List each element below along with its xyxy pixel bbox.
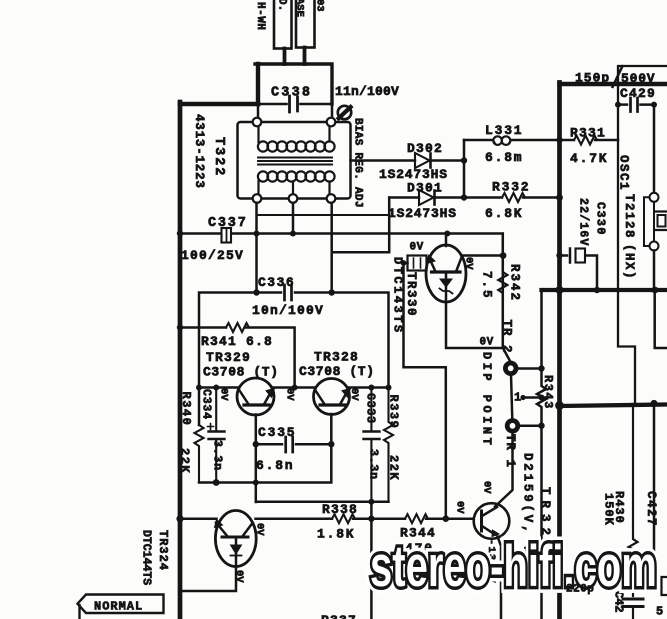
svg-text:T322: T322 <box>211 137 226 177</box>
wire thick top-left to C338 <box>180 102 258 107</box>
svg-text:1.8K: 1.8K <box>317 527 355 542</box>
svg-text:3.3n: 3.3n <box>367 449 380 480</box>
svg-text:TR329: TR329 <box>206 350 251 365</box>
svg-text:R331: R331 <box>570 126 606 141</box>
watermark stereo-hifi.com <box>370 534 657 599</box>
capacitor C336 <box>285 285 292 300</box>
wire y215 <box>257 214 390 216</box>
svg-text:C427: C427 <box>644 491 658 527</box>
diode D301 <box>389 196 419 199</box>
svg-text:0V: 0V <box>410 242 424 254</box>
transistor TR328 <box>314 379 350 415</box>
svg-text:D302: D302 <box>407 141 443 156</box>
svg-text:TR 2: TR 2 <box>500 320 514 354</box>
svg-text:0V: 0V <box>480 337 494 349</box>
wire C338 to T322 right <box>331 104 334 118</box>
capacitor C429 <box>618 103 627 106</box>
svg-text:0V: 0V <box>454 501 466 514</box>
connector CN A <box>274 0 292 49</box>
T322 terminal circles <box>253 118 336 203</box>
wire rail y290 <box>542 288 667 292</box>
wire bar y501.8 <box>256 502 389 619</box>
svg-text:500V: 500V <box>621 71 655 86</box>
connector CN B <box>296 0 315 48</box>
test point TR2 <box>505 363 516 374</box>
svg-text:100/25V: 100/25V <box>181 248 244 263</box>
transistor TR324 (DTC144TS) <box>215 511 256 567</box>
wire C336 row <box>257 293 389 386</box>
capacitor C335 <box>286 437 293 452</box>
resistor R331 row <box>560 139 575 142</box>
wire C338 to T322 left <box>257 104 260 118</box>
svg-text:ASE: ASE <box>294 0 306 17</box>
svg-text:1: 1 <box>514 391 521 405</box>
wire elbow to R341 row / R340 line <box>199 293 257 426</box>
svg-text:DTC144TS: DTC144TS <box>140 530 153 585</box>
svg-text:R332: R332 <box>492 180 530 195</box>
capacitor C427 line <box>653 404 656 578</box>
svg-text:5: 5 <box>656 605 663 619</box>
wire main right bus <box>557 83 562 619</box>
svg-text:(HX): (HX) <box>622 244 636 280</box>
crystal X1 <box>650 193 659 202</box>
wire connector B stub <box>303 48 307 65</box>
svg-text:150p: 150p <box>575 71 610 86</box>
svg-text:R341 6.8: R341 6.8 <box>201 334 273 349</box>
svg-text:C3708 (T): C3708 (T) <box>203 365 279 380</box>
svg-text:22K: 22K <box>178 448 192 474</box>
node rail dots <box>177 230 451 236</box>
capacitor C333 <box>370 388 372 502</box>
wire TR330 base to TP <box>446 302 510 361</box>
svg-text:stereo-hifi.com: stereo-hifi.com <box>370 534 657 599</box>
svg-text:T2128: T2128 <box>622 194 636 239</box>
svg-text:0V: 0V <box>463 257 475 270</box>
svg-text:D301: D301 <box>407 181 443 196</box>
inductor L331 <box>493 140 511 144</box>
screw BIAS adjust <box>338 106 351 119</box>
transistor TR327 <box>474 503 510 539</box>
resistor R343 <box>537 290 546 619</box>
svg-text:TR328: TR328 <box>314 350 359 365</box>
svg-text:7.5: 7.5 <box>480 271 494 300</box>
wire emitter bar y482.5 <box>199 444 331 502</box>
svg-text:10n/100V: 10n/100V <box>252 303 324 318</box>
resistor R342 <box>498 234 507 349</box>
wire connector A stub <box>283 49 287 65</box>
wire thick top right <box>560 82 667 86</box>
svg-text:C334: C334 <box>200 389 213 420</box>
wire T322 bottom-mid down <box>292 203 295 234</box>
svg-text:C335: C335 <box>258 425 296 440</box>
resistor R344 <box>405 514 428 523</box>
resistor R341 <box>226 323 249 332</box>
svg-text:C330: C330 <box>594 202 608 236</box>
capacitor C338 box <box>256 64 260 104</box>
svg-text:C429: C429 <box>620 86 656 101</box>
wire rail y404.5 <box>560 405 667 407</box>
svg-text:C337: C337 <box>208 216 248 231</box>
T322 primary coil <box>258 127 335 152</box>
inductor L331 row <box>464 139 560 142</box>
svg-text:R340: R340 <box>179 392 193 427</box>
wire C335 row <box>256 414 331 444</box>
svg-text:C336: C336 <box>258 275 295 290</box>
wire TP stub y397.5 <box>523 396 542 399</box>
svg-text:220p: 220p <box>566 584 594 596</box>
resistor R430 <box>629 404 638 596</box>
svg-text:6.8m: 6.8m <box>485 150 523 165</box>
wire junction column x464 <box>463 140 466 198</box>
capacitor C334 <box>215 388 217 483</box>
svg-text:22K: 22K <box>387 455 401 481</box>
svg-text:6.8n: 6.8n <box>256 458 294 473</box>
transistor TR330 (DTC143TS) <box>426 245 466 302</box>
resistor R339 <box>384 388 393 502</box>
capacitor C428 <box>623 599 643 607</box>
svg-text:0V: 0V <box>218 388 230 401</box>
svg-text:TR 1: TR 1 <box>503 434 517 468</box>
svg-text:0V: 0V <box>284 388 296 401</box>
switch NORMAL box <box>78 595 164 614</box>
svg-text:OSC1: OSC1 <box>617 155 631 191</box>
svg-text:4.7K: 4.7K <box>570 151 608 166</box>
svg-text:0V: 0V <box>348 388 360 401</box>
svg-text:22/16V: 22/16V <box>577 198 590 247</box>
OSC1 box <box>618 66 667 404</box>
wire rail C337 <box>180 234 503 349</box>
svg-text:DTC143TS: DTC143TS <box>391 257 405 335</box>
svg-text:6.8K: 6.8K <box>485 206 523 221</box>
wire R341 row <box>180 326 226 329</box>
svg-text:1S2473HS: 1S2473HS <box>388 206 457 221</box>
svg-text:11n/100V: 11n/100V <box>335 84 399 99</box>
svg-text:DIP POINT: DIP POINT <box>480 352 494 448</box>
T322 core <box>258 158 332 165</box>
svg-text:0V: 0V <box>233 570 245 583</box>
wire T322 bottom-right down with jog to D301 <box>332 198 390 293</box>
svg-text:C3708 (T): C3708 (T) <box>299 364 375 379</box>
svg-text:R343: R343 <box>541 375 555 410</box>
resistor R332 row <box>464 196 502 199</box>
wire main left bus <box>178 102 183 619</box>
diode D302 <box>415 153 430 168</box>
capacitor C337 symbol <box>222 228 232 243</box>
svg-text:R338: R338 <box>322 502 358 517</box>
svg-text:R337: R337 <box>321 613 357 619</box>
svg-text:0V: 0V <box>481 481 493 494</box>
transformer T322 outline <box>238 122 351 199</box>
TR330 internal resistor <box>408 256 427 271</box>
capacitor C330 <box>560 254 568 257</box>
svg-text:C338: C338 <box>271 86 312 101</box>
svg-text:3.3n: 3.3n <box>211 440 224 471</box>
wire x654 rail290 to right edge jog <box>655 290 667 348</box>
wire T322 to D302 <box>351 159 416 162</box>
svg-text:4313-1223: 4313-1223 <box>192 114 206 189</box>
T322 secondary coil <box>258 171 335 194</box>
wire T322 bottom-left down <box>255 203 258 293</box>
svg-text:TR324: TR324 <box>156 530 170 571</box>
svg-text:03: 03 <box>314 0 326 12</box>
svg-text:H-WH: H-WH <box>254 2 266 30</box>
svg-text:L331: L331 <box>485 123 523 138</box>
transistor TR329 <box>237 378 274 415</box>
svg-text:D.: D. <box>276 0 288 11</box>
wire base row y387.5 <box>199 386 389 389</box>
svg-text:NORMAL: NORMAL <box>94 600 143 614</box>
resistor R340 <box>195 425 204 483</box>
resistor R338 row <box>327 517 332 520</box>
svg-text:R339: R339 <box>387 395 401 430</box>
svg-text:C333: C333 <box>364 393 377 424</box>
svg-text:R342: R342 <box>508 264 522 302</box>
svg-text:150K: 150K <box>602 493 616 526</box>
test point TR1 <box>507 421 518 432</box>
svg-text:0V: 0V <box>254 523 266 536</box>
svg-text:TR330: TR330 <box>404 272 418 317</box>
svg-text:BIAS REG. ADJ: BIAS REG. ADJ <box>352 118 364 208</box>
